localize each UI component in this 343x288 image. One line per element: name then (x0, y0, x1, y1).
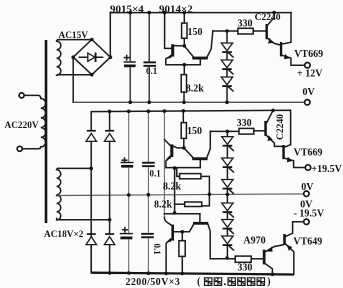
zener chain2 upper wire (226, 131, 228, 136)
terminal primary bottom (17, 146, 22, 151)
svg-text:- 19.5V: - 19.5V (294, 208, 325, 219)
svg-text:0V: 0V (303, 87, 316, 98)
secondary winding AC18Vx2 (57, 168, 61, 220)
capacitor C2 plates (143, 61, 156, 66)
svg-text:330: 330 (238, 18, 253, 29)
terminal 0V-1 (305, 100, 310, 105)
resistor 150-2 body (181, 123, 186, 139)
node bridge top (90, 38, 94, 42)
label 8.2k-mid (163, 182, 182, 193)
transistor V4 collector (207, 131, 210, 157)
rectifier diode D-C (86, 233, 96, 273)
wire node2 lower (164, 213, 200, 215)
transistor VT669-2 collector (285, 145, 291, 147)
capacitor C3 2200u wires (128, 111, 130, 233)
terminal +12V (305, 62, 310, 67)
svg-text:AC220V: AC220V (5, 121, 39, 131)
diode chain2 D5 (222, 220, 234, 237)
svg-text:C2240: C2240 (255, 13, 281, 23)
node dot top tap (89, 167, 93, 171)
label AC18Vx2 (44, 230, 84, 240)
label A970 (243, 235, 265, 246)
diode chain1 D2 (221, 60, 233, 77)
transistor VT649 bar (283, 234, 286, 245)
node dot chain2 bottom (225, 256, 229, 260)
node dots rail2 (108, 109, 185, 113)
resistor 8.2k-low wires (175, 194, 210, 206)
node dots bottom rail (108, 271, 274, 276)
transistor V1 emitter (166, 54, 172, 64)
svg-text:VT669: VT669 (294, 49, 323, 60)
capacitor C1 2200u wires (129, 13, 131, 103)
capacitor C4 0.1 wires (147, 111, 149, 233)
transistor V3 bar (170, 144, 173, 157)
label 0.1 top (146, 66, 158, 76)
node dot C2240-2 collector (271, 109, 275, 113)
resistor 330-1 body (238, 28, 253, 34)
terminal -19.5V (304, 219, 309, 224)
resistor mid-unlabeled body (179, 241, 185, 257)
node bridge right (109, 55, 113, 59)
transformer core (45, 40, 48, 223)
transistor VT669-1 bar (280, 42, 282, 56)
label AC15V (59, 31, 89, 41)
capacitor C3 plates (121, 162, 134, 168)
svg-text:AC18V×2: AC18V×2 (44, 230, 84, 240)
label tone preamp supply CJK (197, 277, 271, 288)
svg-text:2200/50V×3: 2200/50V×3 (126, 277, 181, 288)
label C2240-2 rotated (276, 114, 286, 140)
wire secondary2 bottom tap (58, 219, 110, 221)
node dot V3 collector (182, 146, 186, 150)
transistor V3 collector (173, 146, 184, 148)
svg-text:9015×4: 9015×4 (110, 4, 144, 16)
wire secondary2 top tap (58, 167, 91, 169)
label 150-2 (187, 126, 202, 137)
svg-text:A970: A970 (243, 235, 265, 246)
C3 plus sign (122, 158, 127, 162)
svg-text:): ) (267, 277, 270, 288)
node bridge left (71, 55, 75, 59)
transistor A970 bar (263, 250, 266, 265)
label VT649 (293, 236, 322, 247)
svg-text:+ 12V: + 12V (297, 69, 323, 80)
secondary winding AC15V (57, 40, 61, 76)
label 9014x2 (159, 4, 193, 16)
svg-text:0.1: 0.1 (146, 66, 158, 76)
svg-text:8.2k: 8.2k (154, 199, 173, 210)
svg-text:C2240: C2240 (276, 114, 286, 140)
node dot chain1 top (225, 29, 229, 33)
transistor V5 bar (171, 225, 174, 241)
node dot 174-168 (173, 166, 177, 170)
wire -19.5V to VT649 (286, 222, 304, 237)
transistor V2 base diagonal (184, 46, 193, 57)
wire 330-1 to C2240 base (253, 30, 265, 32)
zener chain1 top wire (226, 31, 228, 43)
C1 plus sign (124, 55, 129, 59)
transistor A970 collector (266, 264, 273, 275)
diode chain1 D1 (221, 43, 233, 60)
resistor 150 top wires (183, 13, 185, 46)
terminal primary top (19, 93, 24, 98)
transistor VT669-2 bar (282, 145, 285, 159)
transistor V4 emitter (199, 160, 201, 167)
diode chain1 D3 (221, 77, 233, 102)
wire 330-3 left (210, 258, 235, 260)
wire mid vertical x164 (163, 111, 165, 218)
wire bottom rail (91, 273, 293, 275)
transistor A970 emitter (266, 245, 284, 252)
wire secondary1 top to bridge (58, 39, 92, 41)
wire 0V rail top section (73, 101, 305, 103)
terminal +19.5V (305, 165, 310, 170)
svg-text:8.2k: 8.2k (163, 182, 182, 193)
label -19.5V (294, 208, 325, 219)
label VT669-2 (294, 147, 323, 158)
node dot V1 collector (183, 44, 187, 48)
transistor C2240-2 collector (267, 111, 273, 123)
diode chain2 D4 (222, 203, 234, 220)
svg-text:150: 150 (188, 27, 203, 38)
terminal 0V-2 (304, 191, 309, 196)
rectifier diode D-B (104, 111, 114, 233)
svg-text:VT669: VT669 (294, 147, 323, 158)
wire bridge plus to top rail (109, 13, 111, 58)
transistor V3 base (164, 140, 170, 146)
label VT669-1 (294, 49, 323, 60)
label 9015x4 (110, 4, 144, 16)
transistor V3 emitter (166, 155, 171, 168)
transistor C2240-1 emitter (268, 38, 280, 45)
wire secondary1 bottom to bridge (58, 74, 92, 76)
wire emitter node1 (166, 64, 201, 66)
node dots 0V rail (128, 101, 228, 105)
resistor 8.2k top body (181, 75, 186, 93)
node dots top rail (128, 11, 276, 15)
node dot 174-213 (173, 211, 177, 215)
primary winding AC220V (22, 95, 45, 148)
svg-text:VT649: VT649 (293, 236, 322, 247)
rectifier diode D-A (86, 130, 96, 273)
resistor 8.2k-low body (185, 202, 202, 207)
transistor VT649 emitter (286, 244, 294, 274)
wire emitter node2 (166, 167, 200, 169)
transistor V6 emitter (199, 214, 201, 222)
capacitor C1 plates (124, 61, 136, 67)
transistor V6 bar (193, 222, 208, 225)
label 150 top (188, 27, 203, 38)
wire 330-1 row (213, 30, 238, 32)
transistor C2240-2 emitter (267, 136, 283, 147)
resistor 8.2k top wires (183, 65, 185, 103)
transistor V6 collector (208, 225, 210, 259)
resistor 8.2k-mid wires (177, 168, 210, 195)
transistor V2 bar (192, 57, 208, 60)
rectifier diode D-D (104, 233, 114, 273)
C5 plus sign (123, 228, 128, 232)
label 330-3 (237, 263, 252, 274)
svg-text:150: 150 (187, 126, 202, 137)
wire center tap 0V (58, 194, 304, 196)
capacitor C5 2200u plates (120, 233, 133, 273)
transistor V4 bar (192, 157, 207, 160)
wire 330-2 row (210, 130, 239, 132)
capacitor C6 0.1 plates (141, 233, 154, 273)
svg-text:330: 330 (237, 263, 252, 274)
svg-text:8.2k: 8.2k (186, 84, 205, 95)
transistor C2240-2 bar (264, 121, 267, 136)
label AC220V (5, 121, 39, 131)
label 8.2k top (186, 84, 205, 95)
transistor VT669-1 emitter (282, 54, 305, 65)
transistor VT669-1 collector (282, 13, 291, 44)
capacitor C2 0.1 wires (148, 13, 150, 103)
bridge rectifier (73, 40, 110, 75)
node dot V5 collector (181, 230, 185, 234)
transistor V1 base drop (165, 13, 172, 49)
wire top rail (110, 12, 291, 14)
label 330-2 (237, 118, 252, 129)
node dots center rail (127, 193, 211, 197)
resistor mid-unlabeled wires (181, 232, 183, 274)
diode chain2 D1 (222, 137, 234, 158)
label 330-1 (238, 18, 253, 29)
resistor 8.2k-mid body (180, 174, 201, 179)
label +12V (297, 69, 323, 80)
transistor V1 bar (171, 44, 174, 56)
capacitor C4 plates (142, 162, 155, 167)
resistor 150-2 wires (182, 111, 185, 148)
wire 330-2 to C2240-2 base (254, 130, 264, 132)
label 0.1 mid (150, 168, 162, 178)
svg-text:0.1: 0.1 (152, 244, 162, 256)
node dot chain2 top (226, 130, 230, 134)
transistor C2240-1 collector (268, 13, 275, 25)
label +19.5V (311, 164, 342, 175)
node bridge bottom (90, 73, 94, 77)
node dot chain2 mid (226, 193, 230, 197)
transistor VT669-2 emitter (285, 157, 305, 168)
diode chain2 D6 (222, 236, 234, 259)
resistor 330-3 body (235, 256, 251, 262)
wire drop x174.6 (174, 168, 176, 214)
transistor V4 base diagonal (184, 148, 193, 158)
transistor V6 base diagonal (174, 225, 194, 232)
svg-text:+19.5V: +19.5V (311, 164, 342, 175)
wire A970 base row (251, 258, 263, 260)
node dot bottom tap (108, 218, 112, 222)
transistor V5 base (164, 217, 171, 225)
diode chain2 D3 (222, 180, 234, 204)
resistor 330-2 body (239, 128, 254, 134)
svg-text:0.1: 0.1 (150, 168, 162, 178)
transistor C2240-1 bar (266, 24, 268, 39)
transistor V2 collector (207, 31, 213, 57)
diode chain2 D2 (222, 158, 234, 180)
label 0.1 bottom rotated (152, 244, 162, 256)
wire rail2 (91, 110, 290, 145)
label 0V-3 (300, 199, 313, 210)
transistor V5 emitter (166, 238, 172, 274)
label 2200/50Vx3 (126, 277, 181, 288)
transistor V2 emitter (199, 60, 201, 65)
resistor 150 top body (182, 23, 187, 38)
transistor V1 collector (174, 45, 185, 47)
label 0V-2 (301, 182, 314, 193)
node dot emitter node1 (183, 63, 187, 67)
svg-text:330: 330 (237, 118, 252, 129)
wire bridge minus down (72, 57, 74, 102)
label 8.2k-low (154, 199, 173, 210)
label C2240-1 (255, 13, 281, 23)
label 0V-1 (303, 87, 316, 98)
